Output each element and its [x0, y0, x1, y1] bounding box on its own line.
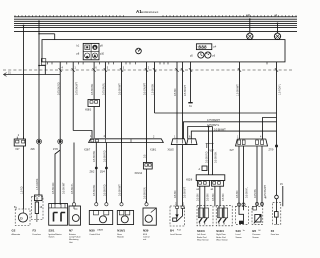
wire S3/1 feed	[58, 62, 64, 142]
svg-text:0.5 BN: 0.5 BN	[207, 193, 210, 201]
svg-text:1.5 RD: 1.5 RD	[20, 186, 23, 194]
wire N30 feed 2	[102, 62, 108, 138]
svg-text:0.5 BK/RD: 0.5 BK/RD	[52, 182, 55, 194]
svg-text:3: 3	[123, 67, 125, 70]
svg-text:2: 2	[148, 67, 150, 70]
label A1 Kombiinstrument	[136, 9, 159, 14]
label F3	[33, 229, 41, 236]
svg-text:Level Sensor: Level Sensor	[170, 234, 182, 236]
bus line 2	[14, 18, 297, 20]
pressure sensor B5	[252, 206, 263, 224]
svg-text:a10: a10	[246, 14, 251, 17]
svg-text:Wear Sensor: Wear Sensor	[197, 239, 209, 241]
svg-text:F2: F2	[271, 229, 275, 233]
svg-text:S10/4: S10/4	[216, 229, 224, 233]
bus line 5	[14, 25, 297, 27]
wire drop to X27/G2	[23, 25, 25, 139]
wire B4 feed 2	[181, 62, 187, 139]
svg-text::8.8.8: :8.8.8	[197, 45, 207, 50]
svg-text:G2: G2	[12, 229, 16, 233]
bus line 6	[14, 27, 297, 29]
svg-text:Control: Control	[143, 236, 150, 239]
svg-text:p6: p6	[212, 54, 215, 57]
svg-text:Kombiinstrument: Kombiinstrument	[140, 11, 158, 14]
label N7	[69, 229, 82, 244]
connector X15/14	[135, 154, 153, 175]
svg-text:0.5 BN/BK: 0.5 BN/BK	[93, 184, 96, 196]
bus ticked line top	[14, 15, 297, 17]
connector X62/8 block	[186, 175, 225, 182]
wire N16/1 lower	[118, 143, 123, 206]
svg-text:0.5: 0.5	[144, 154, 147, 158]
svg-text:Left Front: Left Front	[197, 233, 206, 236]
svg-text:B+: B+	[14, 206, 18, 209]
odometer display	[196, 44, 216, 50]
bus line 3	[14, 20, 297, 22]
wire N7 feed upper	[72, 62, 92, 138]
svg-text:Z6/2: Z6/2	[90, 171, 95, 174]
svg-text:0.5 BN/WT: 0.5 BN/WT	[118, 184, 121, 196]
box bottom pin stubs	[48, 62, 268, 65]
svg-text:1.5 RD/BK: 1.5 RD/BK	[36, 178, 39, 190]
wire N7 lower	[71, 143, 76, 206]
connector trapezoid X18/3	[187, 139, 197, 145]
svg-text:0.5 GN/WT: 0.5 GN/WT	[143, 83, 146, 95]
svg-text:unit: unit	[143, 238, 147, 241]
wire V57 drops	[205, 126, 217, 175]
label S3/1	[49, 229, 62, 239]
svg-text:b1: b1	[77, 45, 80, 48]
wire nest L2 short	[263, 118, 277, 140]
svg-text:30: 30	[36, 198, 39, 201]
connector X27	[14, 134, 25, 151]
svg-text:N16/1: N16/1	[117, 229, 125, 233]
svg-text:N7: N7	[69, 229, 73, 233]
svg-text:Fuse box: Fuse box	[33, 234, 41, 236]
svg-text:w/ABS: w/ABS	[97, 229, 104, 232]
connector a10 drop	[246, 14, 253, 40]
svg-text:5: 5	[107, 67, 109, 70]
svg-text:X68/3: X68/3	[85, 109, 92, 112]
instrument cluster box A1	[42, 40, 285, 62]
dashed separator line	[3, 69, 293, 71]
label N30	[89, 229, 103, 236]
svg-text:16: 16	[40, 206, 43, 209]
svg-text:1: 1	[174, 136, 176, 139]
svg-text:0.5 BN: 0.5 BN	[212, 193, 215, 201]
label S10/3	[197, 229, 209, 242]
svg-text:A: A	[199, 168, 201, 171]
control module N16/1	[117, 211, 133, 225]
connector V57	[206, 144, 215, 153]
bus line 4	[14, 22, 297, 24]
svg-text:N39: N39	[143, 229, 149, 233]
svg-text:0.5 BN/WT: 0.5 BN/WT	[214, 128, 226, 131]
wire drop to Z26/F3	[38, 20, 40, 140]
wire nest L3	[184, 122, 277, 139]
svg-text:0.5 BN/VT: 0.5 BN/VT	[184, 186, 187, 198]
svg-text:0.5 BN/BK: 0.5 BN/BK	[93, 150, 96, 162]
label S43	[236, 229, 246, 239]
svg-text:0.5 BN/BK: 0.5 BN/BK	[214, 151, 217, 163]
svg-text:4: 4	[260, 136, 262, 139]
svg-text:0.75 BN/BL: 0.75 BN/BL	[102, 82, 105, 95]
svg-text:Alternator: Alternator	[12, 233, 21, 236]
svg-text:0.75 BK/WT: 0.75 BK/WT	[75, 82, 78, 95]
wire nest L1 riser	[151, 62, 276, 113]
svg-text:B5: B5	[252, 229, 256, 233]
wire F2 inlet	[265, 183, 283, 202]
svg-text:1.5 RD/YL: 1.5 RD/YL	[278, 83, 281, 95]
wire F3 lower	[36, 144, 39, 195]
svg-text:Z26: Z26	[31, 148, 36, 151]
svg-text:p4: p4	[214, 45, 217, 48]
clock symbol	[190, 52, 216, 58]
svg-text:Ignition/Starter: Ignition/Starter	[49, 233, 62, 236]
svg-text:p10: p10	[100, 53, 105, 56]
svg-text:X26/7: X26/7	[84, 149, 91, 152]
lamp cell square	[85, 45, 90, 50]
svg-text:15: 15	[280, 183, 283, 186]
sensor S10/4	[216, 206, 232, 226]
nest labels	[207, 119, 226, 131]
svg-text:Exterior: Exterior	[69, 233, 76, 236]
svg-text:X18/1: X18/1	[150, 149, 157, 152]
svg-text:6: 6	[95, 67, 97, 70]
wire N39 lower	[143, 169, 148, 206]
svg-text:0.5 BN/RD: 0.5 BN/RD	[103, 184, 106, 196]
connector X62/8 sub left	[196, 181, 209, 191]
svg-text:1.5 BN/BK: 1.5 BN/BK	[151, 83, 154, 95]
svg-text:1: 1	[237, 136, 239, 139]
indicator lamp grid	[83, 43, 99, 59]
wire G2 lower	[20, 146, 23, 209]
sensor S10/3	[197, 206, 213, 226]
label B5	[252, 229, 261, 239]
branch wire from F3 drop	[38, 65, 45, 75]
svg-text:1: 1	[183, 203, 185, 206]
svg-text:0.5 BN: 0.5 BN	[174, 88, 177, 96]
svg-text:2: 2	[18, 134, 20, 137]
control module N7	[69, 206, 81, 225]
svg-text:B4: B4	[170, 229, 174, 233]
svg-text:0.5 BN/RD: 0.5 BN/RD	[103, 150, 106, 162]
box corner sub-connector	[41, 59, 46, 66]
svg-text:Right Rear: Right Rear	[216, 233, 226, 236]
svg-text:X27: X27	[230, 149, 235, 152]
svg-text:X18/2: X18/2	[168, 149, 175, 152]
wire F2 main	[275, 62, 281, 195]
svg-text:Monitoring: Monitoring	[69, 238, 78, 241]
label F2	[271, 229, 279, 236]
bus line 7	[14, 30, 297, 32]
control module N30	[89, 211, 112, 225]
svg-text:S3/1: S3/1	[49, 229, 55, 233]
connector trapezoid X26 wide	[230, 139, 268, 152]
wire B4 feed 1	[174, 62, 179, 139]
svg-text:1a: 1a	[243, 230, 246, 232]
wire nest L4	[188, 127, 213, 139]
connector X26/7 row	[84, 139, 163, 152]
lamp cell circle 2	[85, 53, 90, 58]
svg-text:S43: S43	[236, 229, 242, 233]
svg-text:0.5 BN: 0.5 BN	[197, 193, 200, 201]
wire B5 feeds	[254, 146, 267, 206]
svg-text:0.5 BN/RD: 0.5 BN/RD	[205, 151, 208, 163]
wire N16/1 feed	[118, 62, 124, 143]
svg-text:a1: a1	[211, 188, 214, 191]
fuel level sensor B4	[170, 206, 185, 226]
wire N30 lower 1	[90, 143, 98, 206]
svg-text:0.5 BK/WT: 0.5 BK/WT	[63, 182, 66, 194]
svg-text:Sensor: Sensor	[236, 237, 243, 239]
alternator G2	[14, 206, 30, 226]
connector X62/8 sub right	[211, 181, 224, 191]
wire S10/4 feeds	[212, 186, 225, 206]
svg-text:31: 31	[189, 105, 192, 108]
svg-text:Module: Module	[117, 237, 124, 239]
svg-text:Fuse box: Fuse box	[271, 234, 279, 236]
wire N39 feed	[143, 62, 149, 163]
label N16/1	[117, 229, 125, 239]
svg-text:0.75 BN/WT: 0.75 BN/WT	[207, 119, 221, 122]
wire B4 lower 1	[174, 145, 177, 206]
junction Z7/6	[53, 139, 63, 151]
svg-text:1.5 BN/WT: 1.5 BN/WT	[236, 84, 239, 96]
svg-text:Switch: Switch	[49, 236, 55, 239]
svg-text:0.5 BN/YL: 0.5 BN/YL	[245, 186, 248, 198]
svg-text:0.5 BN/BK: 0.5 BN/BK	[91, 83, 94, 95]
svg-text:0.5 BN: 0.5 BN	[222, 193, 225, 201]
level sensor S43	[235, 206, 248, 224]
svg-text:2: 2	[153, 136, 155, 139]
lamp grid pin labels	[77, 45, 105, 56]
svg-text:Z7/6: Z7/6	[53, 148, 58, 151]
svg-text:Z6/4: Z6/4	[100, 171, 105, 174]
svg-text:X62/8: X62/8	[186, 178, 193, 181]
svg-text:a1: a1	[196, 188, 199, 191]
fuse F3	[32, 195, 44, 222]
control module N39	[143, 208, 156, 225]
svg-text:p8: p8	[77, 53, 80, 56]
wire S3/1 split	[52, 144, 66, 205]
svg-text:p5: p5	[190, 54, 193, 57]
wire B4 lower 2	[183, 145, 187, 206]
svg-text:Control Unit: Control Unit	[89, 233, 100, 236]
svg-text:Fuel: Fuel	[177, 230, 181, 232]
label G2	[12, 229, 21, 236]
junction Z26	[31, 139, 42, 151]
svg-text:0.5 BN: 0.5 BN	[174, 190, 177, 198]
lamp cell circle 3	[92, 53, 97, 58]
svg-text:0.75 BN: 0.75 BN	[254, 189, 257, 198]
svg-text:G: G	[20, 216, 23, 221]
wire nest L5	[191, 131, 276, 139]
svg-text:6: 6	[189, 136, 191, 139]
svg-text:Oil: Oil	[258, 230, 261, 232]
label B4	[170, 229, 182, 236]
wire X68/3 feed	[91, 62, 97, 138]
connector trapezoid X18/2	[168, 139, 187, 152]
svg-text:4: 4	[62, 67, 64, 70]
svg-text:N30: N30	[89, 229, 95, 233]
svg-text:0.5 BK/YL: 0.5 BK/YL	[71, 183, 74, 194]
svg-text:Unit: Unit	[69, 241, 73, 244]
junction Z7/9	[269, 145, 279, 152]
wire N30 lower 2	[100, 143, 108, 206]
svg-text:0.5 BN/VT: 0.5 BN/VT	[184, 84, 187, 96]
wire trapezoid feed right	[236, 62, 241, 139]
pin labels middle row	[90, 135, 262, 138]
ignition switch S3/1	[49, 204, 68, 226]
svg-text:0.75 BK/RD: 0.75 BK/RD	[58, 82, 61, 95]
svg-text:F3: F3	[33, 229, 37, 233]
svg-text:X15/14: X15/14	[135, 172, 143, 175]
svg-text:Z7/9: Z7/9	[269, 149, 274, 152]
fuse F2	[273, 202, 283, 224]
lamp cell circle 1	[92, 45, 97, 50]
svg-text:X27: X27	[15, 148, 20, 151]
svg-text:0.5 BN: 0.5 BN	[236, 190, 239, 198]
svg-text:0.5 BN/WT: 0.5 BN/WT	[118, 83, 121, 95]
connector A box	[199, 166, 208, 171]
svg-text:Sensor: Sensor	[252, 237, 259, 239]
wire terminal 31 leftward	[4, 72, 61, 77]
svg-text:1: 1	[75, 67, 77, 70]
label S10/4	[216, 229, 228, 242]
wire S10/3 feeds	[197, 186, 210, 206]
ground terminal 31	[188, 62, 192, 108]
svg-text:Wear Sensor: Wear Sensor	[216, 239, 228, 241]
wire bus feed to box top	[38, 33, 55, 40]
connector a4 drop	[274, 14, 281, 40]
connector X68/3	[85, 100, 100, 112]
wire S43 feeds	[236, 146, 249, 207]
label N39	[143, 229, 150, 242]
svg-text:p9: p9	[100, 45, 103, 48]
gauge symbol center	[136, 48, 142, 54]
svg-text:S10/3: S10/3	[197, 229, 205, 233]
svg-text:0.5 BN/GN: 0.5 BN/GN	[143, 187, 146, 199]
